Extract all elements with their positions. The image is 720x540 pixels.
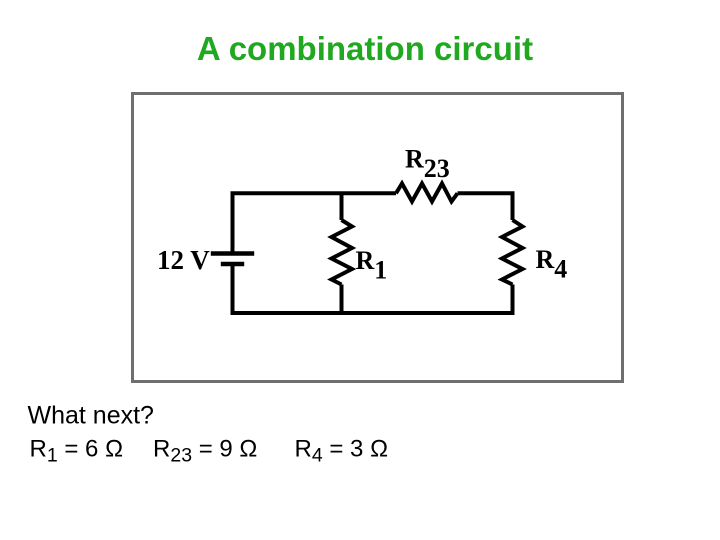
title: A combination circuit [197, 30, 533, 67]
battery B1 positive plate (long) [211, 251, 254, 256]
value R23 = 9 ohm [153, 436, 257, 467]
label R23 [405, 145, 450, 184]
label R1 [356, 246, 388, 285]
svg-text:A combination circuit: A combination circuit [197, 30, 533, 67]
svg-text:R1 = 6 Ω: R1 = 6 Ω [30, 436, 124, 467]
wire: left branch upper segment (battery + to top node) [233, 193, 342, 251]
frame box around schematic [133, 94, 623, 382]
battery value label 12 V [157, 245, 210, 275]
wire: top right segment from R23 to right corner, down to R4 [458, 193, 513, 220]
svg-text:12 V: 12 V [157, 245, 210, 275]
resistor R23 (zigzag) [396, 184, 458, 202]
resistor R1 (zigzag) [332, 220, 353, 285]
value R1 = 6 ohm [30, 436, 124, 467]
svg-text:What next?: What next? [28, 402, 154, 430]
label R4 [536, 245, 568, 284]
caption: What next? [28, 402, 154, 430]
battery B1 negative plate (short) [221, 262, 244, 267]
wire: top segment from node A to R23 [342, 191, 397, 195]
wire: bottom segment from node B to battery - [233, 264, 342, 313]
svg-text:R23 = 9 Ω: R23 = 9 Ω [153, 436, 257, 467]
value R4 = 3 ohm [295, 436, 389, 467]
svg-text:R4 = 3 Ω: R4 = 3 Ω [295, 436, 389, 467]
wire: right branch lower segment (R4 to bottom node) [342, 285, 515, 316]
wire: R1 branch upper segment (node A down to R1) [340, 193, 344, 220]
resistor R4 (zigzag) [502, 220, 523, 285]
wire: R1 branch lower segment (R1 down to node B) [340, 285, 344, 314]
